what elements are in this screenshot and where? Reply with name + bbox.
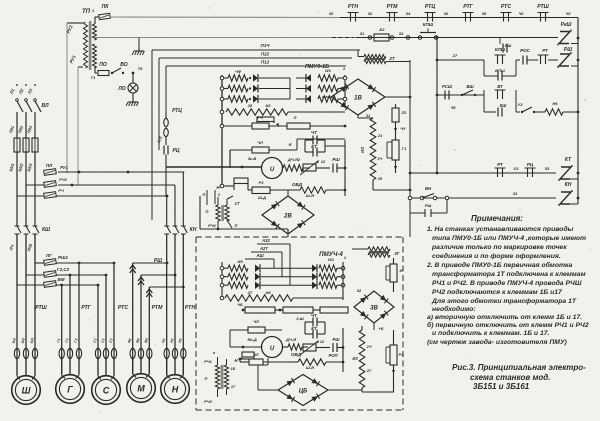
transformer 2G top: [358, 50, 410, 64]
contact RT rung60: [538, 48, 579, 66]
svg-text:ЧУ: ЧУ: [400, 126, 406, 131]
motor Sh: [12, 359, 41, 404]
svg-text:ПГ: ПГ: [46, 253, 52, 258]
box2 resistor-diode row R2: [312, 273, 345, 281]
mains wire to motor Sh phase 2: [25, 234, 27, 275]
svg-text:РШ: РШ: [505, 43, 512, 48]
svg-text:РШ: РШ: [425, 203, 432, 208]
box2 resistor-diode row L1: [220, 264, 312, 272]
svg-text:КШ: КШ: [42, 227, 50, 233]
svg-text:12: 12: [321, 159, 326, 164]
parallel branch RSh under VN: [410, 199, 447, 217]
wire TP primary bottom to rail: [78, 67, 83, 185]
svg-text:ПК: ПК: [102, 4, 110, 10]
box2 row labels: [237, 259, 243, 264]
wire RSh under KPSh: [500, 38, 511, 53]
svg-text:ДЧ-Я: ДЧ-Я: [285, 337, 296, 342]
coil RSh: [558, 47, 572, 68]
svg-text:соединения и по форме оформлен: соединения и по форме оформления.: [432, 252, 561, 260]
svg-text:РЧ: РЧ: [58, 188, 64, 193]
branch y275 fuse: [26, 267, 107, 277]
svg-text:ВМ: ВМ: [58, 277, 65, 282]
label T1: [91, 75, 96, 80]
label RU2: [66, 24, 74, 34]
right rail x578: [577, 18, 580, 205]
resistor-diode row L1: [220, 74, 290, 82]
label RU1: [69, 54, 77, 64]
svg-text:РОП: РОП: [328, 353, 338, 358]
svg-text:И6: И6: [265, 290, 271, 295]
figure caption: [452, 363, 586, 391]
rail x437: [436, 36, 439, 174]
row y190 resistor R3: [248, 180, 300, 200]
svg-text:необходимо:: необходимо:: [432, 305, 476, 313]
contact ROS: [516, 48, 538, 65]
label I39: [26, 242, 33, 251]
svg-text:РТШ: РТШ: [35, 305, 47, 311]
svg-text:РТГ: РТГ: [81, 305, 91, 311]
svg-text:Х3: Х3: [513, 166, 520, 171]
ground at y37 line: [132, 38, 144, 56]
mains line Л3: [26, 84, 41, 138]
bridge 3V: [354, 288, 394, 331]
box2 resistor chain row: [222, 298, 348, 321]
svg-text:РЧ1: РЧ1: [208, 223, 217, 228]
svg-text:РТН: РТН: [185, 305, 195, 311]
svg-text:33: 33: [513, 191, 518, 196]
wire VO to lamp: [132, 73, 134, 83]
wire top rung from PK: [111, 16, 340, 19]
svg-text:РТШ: РТШ: [537, 4, 549, 10]
coil KT: [559, 157, 572, 181]
svg-text:РШ: РШ: [333, 337, 341, 342]
svg-text:Г1: Г1: [402, 146, 407, 151]
mains line Л1: [8, 84, 23, 138]
wires M-N from control: [167, 172, 184, 226]
contact KT box2: [305, 326, 343, 339]
svg-text:ОВД: ОВД: [292, 182, 303, 187]
transformer 1T box2: [204, 351, 236, 404]
wires bundle to M-N: [35, 152, 69, 180]
svg-text:53: 53: [545, 166, 550, 171]
row y150 resistor ChL: [230, 139, 345, 168]
svg-text:32: 32: [357, 288, 362, 293]
svg-text:РШ1: РШ1: [58, 255, 68, 260]
svg-text:ВШ: ВШ: [466, 84, 474, 89]
ground under lamp: [126, 93, 138, 106]
contactor KSh contacts: [15, 226, 51, 234]
svg-text:ЧБ: ЧБ: [237, 302, 243, 307]
svg-text:3г-В: 3г-В: [248, 156, 257, 161]
motor S: [92, 359, 121, 404]
label ROP: [328, 353, 338, 358]
resistor-diode row R3: [296, 95, 347, 103]
left rail box2 rows: [221, 262, 223, 300]
wire P12: [166, 60, 346, 113]
svg-text:и подключить к клеммам. 1Б и: и подключить к клеммам. 1Б и 17.: [432, 329, 550, 337]
svg-text:РТЦ: РТЦ: [425, 4, 435, 10]
svg-text:1Б: 1Б: [231, 367, 236, 371]
svg-text:П1Ч: П1Ч: [261, 43, 271, 48]
resistor ShYa box2: [290, 359, 344, 370]
transformer 1T upper: [200, 196, 288, 234]
svg-text:ЧФ: ЧФ: [235, 69, 242, 74]
branch y285 fuse VM: [17, 277, 99, 287]
wires to motor M: [133, 263, 150, 374]
contact ChT: [305, 130, 325, 152]
motor N: [161, 359, 190, 403]
svg-text:КТ: КТ: [565, 157, 572, 163]
rung y60: [437, 53, 484, 60]
svg-text:РТМ: РТМ: [152, 305, 163, 311]
svg-text:Яг-Д: Яг-Д: [246, 337, 256, 342]
potentiometer RTs box2: [300, 339, 330, 355]
svg-text:34: 34: [406, 11, 411, 16]
labels row R: [325, 66, 346, 73]
svg-text:31: 31: [360, 31, 365, 36]
plug arrows RSh above motor M: [130, 258, 163, 297]
rung y112: [437, 95, 578, 115]
right rail of diode rows: [344, 75, 346, 108]
svg-text:Г: Г: [67, 385, 73, 395]
coil RkSh: [558, 22, 578, 46]
svg-text:И3: И3: [352, 356, 358, 361]
row L jumper: [235, 69, 290, 99]
svg-text:36: 36: [444, 11, 449, 16]
switch VL label: [41, 103, 49, 109]
svg-text:КПШ: КПШ: [423, 22, 434, 27]
label OVD box2: [291, 352, 302, 357]
rail x343 lower box2: [342, 328, 344, 372]
svg-text:П: П: [205, 376, 208, 381]
svg-text:23: 23: [377, 134, 383, 138]
svg-text:РЦ: РЦ: [173, 148, 180, 154]
svg-text:П12: П12: [261, 60, 270, 65]
resistor-diode row R1: [296, 74, 347, 82]
svg-text:33: 33: [399, 31, 404, 36]
wire terminal labels РТШ: [11, 337, 35, 343]
svg-text:27: 27: [366, 369, 372, 373]
svg-text:ПО: ПО: [99, 62, 107, 68]
wire TP secondary top up: [95, 17, 99, 24]
svg-text:Л: Л: [293, 115, 297, 120]
transformer 2G box2: [352, 247, 403, 257]
svg-text:РЧ2: РЧ2: [204, 399, 213, 404]
thermal relay РТМ: [130, 305, 163, 359]
row y126 resistor R4: [220, 115, 346, 129]
svg-text:ВЛ: ВЛ: [41, 103, 49, 109]
relay RTC: [164, 108, 183, 145]
svg-text:П: П: [206, 209, 209, 214]
svg-text:КН: КН: [565, 182, 572, 188]
feeder A32: [257, 238, 290, 285]
labels small fuses: [58, 177, 67, 193]
wire P14: [152, 43, 360, 220]
rung y198: [408, 186, 578, 204]
svg-text:трансформатора 1Т подключена к: трансформатора 1Т подключена к клеммам: [432, 270, 586, 278]
amplifier U1 machine: [166, 156, 310, 179]
rectifier bridge 2V upper: [262, 190, 314, 237]
svg-text:ВО: ВО: [120, 62, 127, 68]
svg-text:Рис.3. Принципиальная электро: Рис.3. Принципиальная электро-: [452, 363, 586, 372]
svg-text:РСШ: РСШ: [442, 84, 453, 89]
switch VO: [111, 62, 128, 74]
rail x410 mid: [409, 60, 412, 237]
rung y37 components: [332, 22, 558, 41]
label L4: [8, 244, 15, 252]
transformer TP secondary winding lower: [93, 44, 97, 68]
svg-text:РТС: РТС: [118, 305, 128, 311]
wire y37 from TP: [95, 37, 360, 39]
svg-text:Ш-Я: Ш-Я: [306, 365, 314, 370]
svg-text:Л2: Л2: [401, 110, 408, 115]
thermal relay РТС: [95, 305, 128, 359]
svg-text:Т1: Т1: [91, 75, 96, 80]
svg-text:РТС: РТС: [501, 4, 511, 10]
svg-text:АШ: АШ: [255, 253, 264, 258]
svg-text:ТП: ТП: [82, 9, 91, 15]
svg-text:W1: W1: [328, 257, 335, 262]
svg-text:ВН: ВН: [425, 186, 432, 191]
svg-text:U: U: [270, 167, 275, 173]
svg-text:РТГ: РТГ: [463, 4, 473, 10]
mains wire to motor Sh phase 1: [16, 234, 18, 285]
svg-text:РШ: РШ: [332, 157, 340, 162]
wire TP primary top to left rail: [67, 23, 83, 173]
svg-text:ЧЛ: ЧЛ: [257, 140, 263, 145]
svg-text:РОС: РОС: [520, 48, 531, 53]
svg-text:И3: И3: [360, 147, 365, 153]
rung y173: [437, 162, 578, 179]
svg-text:ВПШ: ВПШ: [495, 68, 505, 73]
svg-text:КН: КН: [190, 227, 197, 233]
svg-text:Ш-Д: Ш-Д: [258, 196, 266, 200]
svg-text:31: 31: [366, 114, 370, 118]
contact KT: [305, 144, 345, 157]
left rail of diode rows: [221, 75, 223, 186]
svg-text:27: 27: [452, 53, 458, 58]
thermal relay РТГ: [59, 305, 92, 359]
potentiometer RTs2: [300, 159, 330, 175]
svg-text:РТЦ: РТЦ: [172, 108, 182, 114]
svg-text:1Т: 1Т: [235, 201, 240, 206]
svg-text:ВТ: ВТ: [497, 84, 503, 89]
svg-text:П: П: [203, 192, 206, 197]
buttons KLSh/VPSh: [484, 47, 516, 81]
svg-text:Б2: Б2: [379, 27, 385, 32]
box2 resistor-diode row L3: [220, 281, 312, 289]
wire terminal labels РТМ: [127, 338, 149, 344]
svg-text:КШ: КШ: [500, 103, 508, 108]
contactor KN contacts: [164, 226, 197, 234]
svg-text:30: 30: [329, 11, 334, 16]
svg-text:РУ1: РУ1: [60, 165, 68, 170]
row y190 resistor ShYa: [300, 187, 346, 198]
label PMUCh-4: [319, 251, 343, 258]
long resistor I2: [220, 103, 345, 115]
rail x345 in PMU box: [344, 140, 346, 196]
wires to motor G: [62, 263, 79, 374]
svg-text:РкШ: РкШ: [561, 22, 572, 28]
lamp LO: [117, 83, 138, 93]
box2 resistor-diode row L2: [220, 273, 312, 281]
sub box RT-KSh: [484, 84, 516, 117]
svg-text:схема станков мод.: схема станков мод.: [470, 373, 550, 382]
svg-text:2В: 2В: [283, 214, 292, 220]
transformer TP primary winding: [84, 22, 88, 68]
thermal relay РТШ: [14, 305, 47, 359]
svg-text:2Г: 2Г: [393, 251, 400, 256]
box2 long resistor 27: [220, 290, 343, 301]
resistor-diode row L2: [220, 85, 290, 93]
dashed enclosure PMUCh-4: [196, 237, 403, 410]
contact RTs: [157, 136, 180, 196]
svg-text:(см чертеж завода- изготовител: (см чертеж завода- изготовителя ПМУ): [427, 338, 568, 346]
svg-text:W1: W1: [325, 68, 332, 73]
svg-text:а) вторичную отключить от клем: а) вторичную отключить от клемм 1Б и 17.: [427, 314, 582, 321]
motor M: [127, 359, 156, 402]
rung y95: [437, 84, 484, 100]
svg-text:РТМ: РТМ: [387, 4, 398, 10]
wire U2 down: [258, 358, 268, 390]
label P1 terminal: [92, 8, 95, 13]
svg-text:А2Т: А2Т: [259, 246, 268, 251]
svg-text:2Ч: 2Ч: [366, 345, 372, 349]
wire P22: [159, 52, 352, 151]
fuse PR2: [17, 124, 29, 226]
wires to motor Sh: [17, 263, 35, 375]
svg-text:Н6: Н6: [552, 101, 558, 106]
contact ChT box2: [305, 313, 325, 334]
wire TP secondary bottom to PO row: [95, 67, 97, 73]
svg-text:3Л: 3Л: [254, 352, 259, 357]
svg-text:ЧЛ: ЧЛ: [253, 319, 259, 324]
svg-text:различие только по маркировке: различие только по маркировке точек: [431, 244, 567, 251]
svg-text:С: С: [103, 386, 110, 396]
svg-text:2: 2: [217, 193, 220, 197]
svg-text:2. В приводе ПМУ0-1Б первичная: 2. В приводе ПМУ0-1Б первичная обмотка: [426, 261, 573, 269]
svg-text:27: 27: [247, 290, 253, 295]
svg-text:ЦБ: ЦБ: [299, 389, 308, 395]
svg-text:79: 79: [138, 66, 143, 71]
fuse PR3: [26, 124, 38, 226]
svg-text:3В: 3В: [370, 306, 378, 312]
svg-text:Ч5: Ч5: [450, 105, 456, 110]
contact PO: [98, 62, 109, 76]
svg-text:Ш: Ш: [22, 386, 31, 396]
svg-text:Для этого обмотки трансформато: Для этого обмотки трансформатора 1Т: [431, 297, 577, 305]
svg-text:Ч0: Ч0: [518, 11, 524, 16]
coil KN: [559, 182, 572, 206]
resistor R1 box2: [386, 330, 404, 392]
svg-text:Р1: Р1: [399, 352, 405, 357]
svg-text:РЧ2: РЧ2: [59, 177, 68, 182]
svg-text:РЧ2 подключаются к клеммам 1Б: РЧ2 подключаются к клеммам 1Б и17: [432, 288, 563, 296]
svg-text:И9: И9: [237, 259, 243, 264]
mains line Л2: [17, 84, 32, 138]
capacitor L2 column: [392, 104, 407, 140]
label OVD: [292, 182, 303, 187]
wire y173 left extension: [409, 172, 437, 175]
transformer TP label: [82, 9, 91, 15]
svg-text:типа ПМУ0-1Б или ПМУЧ-4 ,котор: типа ПМУ0-1Б или ПМУЧ-4 ,которые имеют: [432, 235, 586, 242]
svg-text:Примечания:: Примечания:: [471, 214, 523, 223]
wires to motor N: [167, 234, 184, 375]
row N box2: [234, 352, 254, 363]
box2 resistor-diode row R3: [312, 281, 345, 289]
contact RSh box2: [333, 337, 345, 352]
svg-text:ОВД: ОВД: [291, 352, 302, 357]
mains wire to motor Sh phase 3: [34, 234, 36, 263]
svg-text:И: И: [400, 268, 403, 273]
row y186 node N: [216, 178, 248, 190]
capacitor G1 column: [387, 140, 407, 173]
svg-text:б) первичную отключить от клем: б) первичную отключить от клемм РЧ1 и РЧ…: [427, 321, 589, 329]
resistor chain vertical box2: [352, 326, 394, 392]
svg-text:ДЧ-Я2: ДЧ-Я2: [287, 157, 301, 162]
svg-text:12: 12: [320, 339, 325, 344]
contact RSh mid: [332, 157, 346, 173]
svg-text:М: М: [137, 384, 145, 394]
bridge 2V lower: [258, 375, 362, 406]
svg-text:РЧ1: РЧ1: [204, 359, 213, 364]
svg-text:РШ: РШ: [564, 47, 572, 53]
svg-text:1. На станках устанавливаются: 1. На станках устанавливаются приводы: [427, 225, 574, 233]
svg-text:ЛО: ЛО: [117, 86, 125, 92]
svg-text:Р3: Р3: [259, 180, 265, 185]
wires to motor S: [98, 263, 114, 375]
branch wires right y173-196: [17, 171, 184, 199]
notes text block: [426, 214, 589, 346]
resistor 3L box2: [240, 352, 290, 365]
svg-text:28: 28: [247, 103, 253, 108]
amplifier U2 machine: [242, 337, 308, 358]
svg-text:И2: И2: [265, 103, 271, 108]
svg-text:У3: У3: [518, 102, 524, 107]
feeder A12: [245, 253, 274, 268]
svg-text:38: 38: [482, 11, 487, 16]
wire terminal labels РТН: [161, 338, 183, 344]
wire terminal labels РТГ: [56, 338, 78, 343]
svg-text:32: 32: [368, 11, 373, 16]
svg-text:1В: 1В: [354, 96, 362, 102]
transformer TP core: [89, 21, 92, 70]
thermal relay РТН: [164, 305, 195, 359]
transformer TP secondary winding upper: [93, 24, 97, 40]
feeder A2T: [251, 246, 282, 277]
wire terminal labels РТС: [92, 338, 113, 344]
box2 resistor-diode row R1: [312, 264, 345, 272]
svg-text:П22: П22: [261, 52, 270, 57]
svg-text:Ш-Я: Ш-Я: [306, 193, 314, 198]
box2 right rail: [328, 255, 347, 300]
svg-text:+Б: +Б: [378, 326, 383, 331]
svg-text:3Б151 и 3Б161: 3Б151 и 3Б161: [473, 382, 530, 391]
transformer 1T upper leads: [203, 190, 220, 205]
svg-text:Н: Н: [172, 385, 179, 395]
svg-text:25: 25: [377, 177, 383, 181]
svg-text:РЧ1 и РЧ2. В приводе ПМУЧ-4 пр: РЧ1 и РЧ2. В приводе ПМУЧ-4 провода РЧШ: [432, 279, 582, 287]
svg-text:РТН: РТН: [348, 4, 358, 10]
links M to N wires: [133, 262, 185, 289]
node 79: [132, 66, 143, 74]
resistor ChL box2: [230, 319, 282, 347]
svg-text:А32: А32: [261, 238, 270, 243]
svg-text:РЦ: РЦ: [527, 162, 534, 167]
resistor I column: [386, 258, 403, 292]
fuse PK: [99, 4, 111, 20]
label PMU-1B: [305, 64, 329, 70]
